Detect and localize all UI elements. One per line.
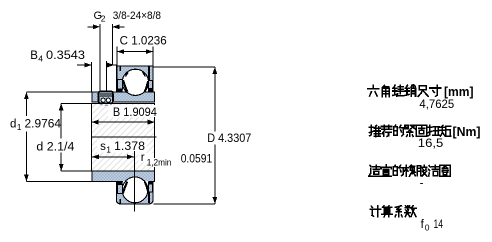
svg-text:B 1.9094: B 1.9094 (113, 107, 158, 119)
svg-text:B: B (30, 50, 38, 62)
B witness right upper (154, 103, 156, 105)
D bottom leader (154, 203, 215, 205)
spec row 4: calculation factor (370, 206, 381, 217)
raceway shoulder ticks (upper) (120, 66, 121, 70)
B4 line (77, 64, 85, 66)
svg-text:d: d (10, 119, 16, 131)
s1 arr l (92, 154, 99, 159)
svg-text:[Nm]: [Nm] (453, 125, 481, 139)
C arr r (146, 49, 153, 54)
d1 arr d (24, 175, 29, 182)
G2 arr r (112, 24, 119, 29)
d arr d (59, 164, 64, 171)
spec row 1: hex key size (368, 85, 379, 96)
spec row 3: suitable rubber ring (369, 165, 380, 176)
inner ring sleeve (upper) (92, 92, 155, 102)
svg-text:s: s (100, 141, 106, 153)
svg-text:0.0591: 0.0591 (181, 154, 213, 166)
d1 arr u (24, 92, 29, 99)
B dim line (91, 121, 154, 123)
C dim line (117, 51, 153, 53)
d1 bottom leader (26, 181, 92, 183)
arrow2 line (107, 64, 118, 66)
svg-text:C 1.0236: C 1.0236 (120, 35, 167, 47)
spec row 2: tightening torque (369, 125, 380, 136)
B witness right mid (154, 117, 156, 158)
G2 witness right (111, 24, 113, 65)
D dim line upper (214, 67, 216, 132)
thread witness (106, 61, 108, 92)
D arr u (213, 67, 218, 74)
svg-text:4,7625: 4,7625 (419, 99, 454, 111)
set screw G2 (99, 91, 113, 103)
r witness lower (154, 167, 156, 171)
C witness right (152, 46, 154, 66)
shaft (hatched) (92, 103, 155, 170)
svg-text:1,2min: 1,2min (147, 158, 172, 168)
arrow2 head (107, 63, 114, 68)
ball (upper) (122, 69, 148, 95)
svg-text:1: 1 (17, 122, 22, 132)
svg-text:4: 4 (38, 53, 43, 63)
svg-text:d 2.1/4: d 2.1/4 (36, 141, 75, 153)
G2 right arrow line (112, 26, 124, 28)
seal right (upper) (148, 81, 152, 89)
B arr l (91, 120, 98, 125)
B4 witness (91, 62, 93, 92)
D dim line lower (214, 145, 216, 205)
B arr r (148, 120, 155, 125)
thread arc below screw (100, 104, 112, 106)
seal left (lower) (117, 184, 122, 193)
seal left (upper) (117, 80, 122, 89)
ball (lower) (122, 177, 148, 203)
svg-text:[mm]: [mm] (444, 85, 474, 99)
C arr l (117, 49, 124, 54)
bearing outer ring (lower) (117, 181, 154, 204)
d1 top leader (26, 91, 92, 93)
d1 dim line lower (25, 132, 27, 182)
bearing outer ring (upper) (117, 66, 154, 92)
D arr d (213, 197, 218, 204)
svg-text:3/8-24×8/8: 3/8-24×8/8 (113, 10, 161, 22)
G2 left arrow line (88, 26, 94, 28)
inner ring sleeve (lower) (92, 171, 155, 181)
s1 dim line (92, 156, 134, 158)
svg-text:D 4.3307: D 4.3307 (207, 133, 251, 145)
ball center line (133, 151, 135, 212)
d top leader (61, 102, 155, 104)
svg-text:2.9764: 2.9764 (25, 119, 62, 131)
d dim line upper (60, 103, 62, 138)
svg-text:1: 1 (106, 144, 111, 154)
centerline (91, 136, 156, 138)
s1 arr r (127, 154, 134, 159)
d1 dim line upper (25, 92, 27, 116)
svg-text:-: - (420, 178, 424, 190)
shaft edge left (91, 103, 93, 171)
d bottom leader (61, 170, 92, 172)
B4 arr (85, 63, 92, 68)
svg-text:0.3543: 0.3543 (46, 50, 85, 62)
d dim line lower (60, 153, 62, 171)
svg-text:r: r (141, 152, 145, 164)
seal right (lower) (148, 184, 152, 192)
svg-text:0: 0 (425, 223, 430, 233)
G2 witness left (99, 24, 101, 92)
d arr u (59, 103, 64, 110)
G2 arr l (93, 24, 100, 29)
C witness left (116, 46, 118, 91)
svg-text:16,5: 16,5 (418, 138, 444, 150)
svg-text:14: 14 (434, 219, 444, 231)
D top leader (153, 66, 215, 68)
svg-text:2: 2 (101, 14, 106, 24)
